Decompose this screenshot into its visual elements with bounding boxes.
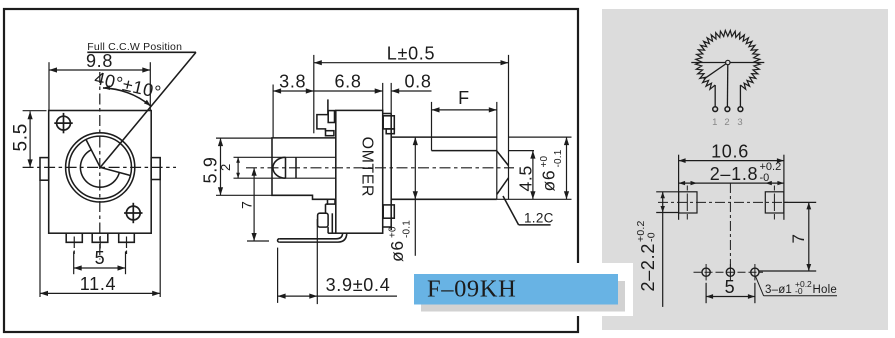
pin 3 terminal circle — [738, 107, 743, 112]
dimension 3.9 extension lines — [277, 248, 279, 303]
front view vertical center line — [99, 72, 101, 260]
bracket plate bottom nub — [383, 205, 394, 218]
front view body outline — [49, 111, 152, 234]
svg-text:+0: +0 — [388, 226, 399, 238]
svg-text:1: 1 — [712, 117, 718, 128]
svg-text:40°±10°: 40°±10° — [93, 68, 164, 103]
svg-text:Hole: Hole — [813, 284, 837, 296]
full ccw position leader line — [87, 51, 196, 53]
40 degree angle arc — [103, 88, 151, 106]
bottom view left tab — [679, 192, 697, 213]
dimension 3.8 — [272, 85, 274, 138]
holes center line — [694, 271, 764, 273]
bottom view vertical center line — [729, 183, 731, 277]
dimension 11.4 line — [40, 292, 160, 294]
slot band top line — [234, 156, 336, 158]
svg-text:OMTER: OMTER — [359, 137, 376, 197]
dimension 2 rear slot — [237, 157, 239, 178]
bottom view right tab center mark — [773, 186, 775, 191]
dimension 10.6 line — [679, 160, 784, 162]
pin 1 terminal circle — [713, 107, 718, 112]
dimension 5.5 line — [29, 111, 31, 167]
svg-text:-0.1: -0.1 — [402, 220, 413, 238]
side view pin bar — [327, 227, 329, 233]
side view top edge stub — [327, 99, 329, 114]
svg-text:-0: -0 — [795, 286, 803, 296]
pin 1 lead — [714, 85, 716, 107]
adjustment slot chord lines — [285, 157, 287, 178]
shaft flat line — [432, 150, 497, 152]
svg-text:3: 3 — [737, 117, 743, 128]
front view leg 2 — [92, 233, 108, 242]
svg-text:2–2.2: 2–2.2 — [638, 243, 658, 292]
dimension 5.5 text — [10, 123, 31, 152]
right gray panel background — [602, 9, 888, 330]
shaft chamfer top diagonal — [497, 151, 509, 166]
front view leg 1 — [66, 233, 82, 242]
hole 2 — [726, 268, 734, 276]
dimension 10.6 extension lines — [678, 155, 680, 220]
dimension 4.5 — [509, 150, 535, 152]
screw cross bottom-right — [126, 206, 140, 220]
front view rotor with slot wedge — [86, 140, 130, 176]
dimension 9.8 line — [49, 69, 150, 71]
dimension 2-2.2 text — [635, 220, 658, 291]
svg-text:5: 5 — [725, 277, 736, 297]
dimension 5 extension lines — [73, 251, 75, 274]
svg-text:9.8: 9.8 — [86, 51, 113, 71]
dimension phi6 left text — [387, 220, 413, 262]
side view top ear inner rect — [328, 111, 334, 123]
model box shadow — [421, 281, 625, 312]
dimension F — [431, 102, 433, 151]
bottom view horizontal center line — [658, 201, 790, 203]
svg-text:10.6: 10.6 — [711, 142, 749, 162]
screw cross top-left — [57, 116, 71, 130]
shaft chamfer start line — [496, 102, 498, 199]
front view outer circle — [66, 133, 135, 202]
dimension phi6 left line — [414, 137, 416, 256]
slot band bottom line — [234, 177, 336, 179]
front view right mounting tab — [151, 158, 160, 180]
shaft end face line — [508, 55, 510, 199]
svg-text:ø6: ø6 — [539, 170, 559, 192]
dimension phi6 right — [509, 136, 572, 138]
bottom view left tab center mark — [686, 186, 688, 191]
dimension 5 bottom view line — [706, 296, 755, 298]
model box blue rectangle — [414, 274, 618, 305]
bottom view right tab — [765, 192, 784, 213]
hole label leader — [756, 277, 764, 296]
svg-text:L±0.5: L±0.5 — [387, 44, 435, 64]
svg-text:5: 5 — [95, 248, 106, 268]
svg-text:3–ø1: 3–ø1 — [765, 284, 792, 296]
dimension 11.4 extension lines — [39, 180, 41, 297]
svg-text:-0: -0 — [760, 172, 770, 184]
wiper horizontal line — [691, 62, 764, 64]
leg 3 center mark — [126, 237, 128, 249]
dimension 2-1.8 line — [679, 182, 784, 184]
pin 2 lead — [726, 63, 728, 107]
dimension 7 text bottom view — [789, 233, 808, 243]
front view horizontal center line — [23, 166, 176, 168]
white backing of model box — [404, 263, 633, 316]
svg-text:0.8: 0.8 — [404, 72, 431, 92]
dimension 2-2.2 extension lines — [656, 191, 678, 193]
dimension 5 line — [74, 267, 126, 269]
svg-text:F: F — [458, 88, 470, 108]
svg-text:7: 7 — [238, 201, 254, 210]
dimension 6.8 — [382, 83, 384, 111]
dimension 5.5 extension line — [23, 110, 47, 112]
svg-text:F–09KH: F–09KH — [427, 276, 516, 303]
dimension 9.8 extension lines — [48, 62, 50, 110]
dimension 7 extension lines bottom view — [784, 201, 816, 203]
potentiometer symbol zigzag ring — [696, 30, 760, 89]
svg-text:2: 2 — [724, 117, 730, 128]
svg-text:4.5: 4.5 — [516, 165, 536, 191]
side view top ear nub — [326, 131, 334, 136]
hole 1 — [702, 268, 710, 276]
side view top ear — [317, 115, 328, 131]
svg-text:2–1.8: 2–1.8 — [710, 164, 759, 184]
dimension 5 bottom view extension lines — [705, 283, 707, 303]
svg-text:6.8: 6.8 — [334, 72, 361, 92]
svg-text:11.4: 11.4 — [80, 274, 117, 294]
side view bottom mounting foot — [318, 213, 329, 227]
pin 2 terminal circle — [725, 107, 730, 112]
side view bottom ear nub — [328, 199, 336, 204]
svg-text:ø6: ø6 — [387, 240, 407, 262]
svg-text:5.5: 5.5 — [10, 123, 31, 152]
bracket plate — [390, 114, 392, 231]
front view left mounting tab — [40, 158, 49, 181]
svg-text:-0.1: -0.1 — [553, 149, 564, 167]
shaft top edge — [391, 136, 497, 138]
dimension L line — [313, 55, 315, 133]
side view horizontal center line — [246, 167, 514, 169]
svg-text:1.2C: 1.2C — [524, 211, 554, 226]
bracket plate top nub — [383, 116, 394, 129]
dimension 5.9 — [216, 137, 272, 139]
svg-text:3.8: 3.8 — [279, 72, 306, 92]
front view leg 3 — [119, 233, 135, 242]
shaft chamfer bottom diagonal — [497, 178, 509, 195]
wiper diagonal to ring — [704, 63, 728, 80]
side view rear block — [272, 138, 336, 199]
pin 3 lead — [739, 85, 741, 107]
adjustment slot boss arc — [273, 157, 286, 178]
dimension 2-2.2 line — [662, 192, 664, 307]
chamfer 1.2C leader — [503, 196, 519, 225]
svg-text:-0: -0 — [646, 232, 658, 242]
dimension 7 side view — [247, 240, 269, 242]
outer border frame — [4, 9, 578, 332]
leg 1 center mark — [73, 237, 75, 249]
dimension 7 line bottom view — [808, 202, 810, 271]
svg-text:3.9±0.4: 3.9±0.4 — [326, 275, 391, 295]
bent lead bottom — [279, 233, 347, 242]
side view body outline — [336, 110, 383, 233]
shaft bottom edge — [391, 198, 497, 200]
front view inner circle — [69, 136, 132, 199]
wiper center dot — [726, 60, 730, 64]
hole 3 — [751, 268, 759, 276]
dimension 3.9 line — [278, 295, 397, 297]
svg-text:2: 2 — [218, 163, 233, 171]
dimension 0.8 — [390, 83, 392, 114]
svg-text:7: 7 — [789, 233, 808, 243]
leg 2 center mark — [99, 236, 101, 249]
svg-text:+0: +0 — [539, 155, 550, 167]
